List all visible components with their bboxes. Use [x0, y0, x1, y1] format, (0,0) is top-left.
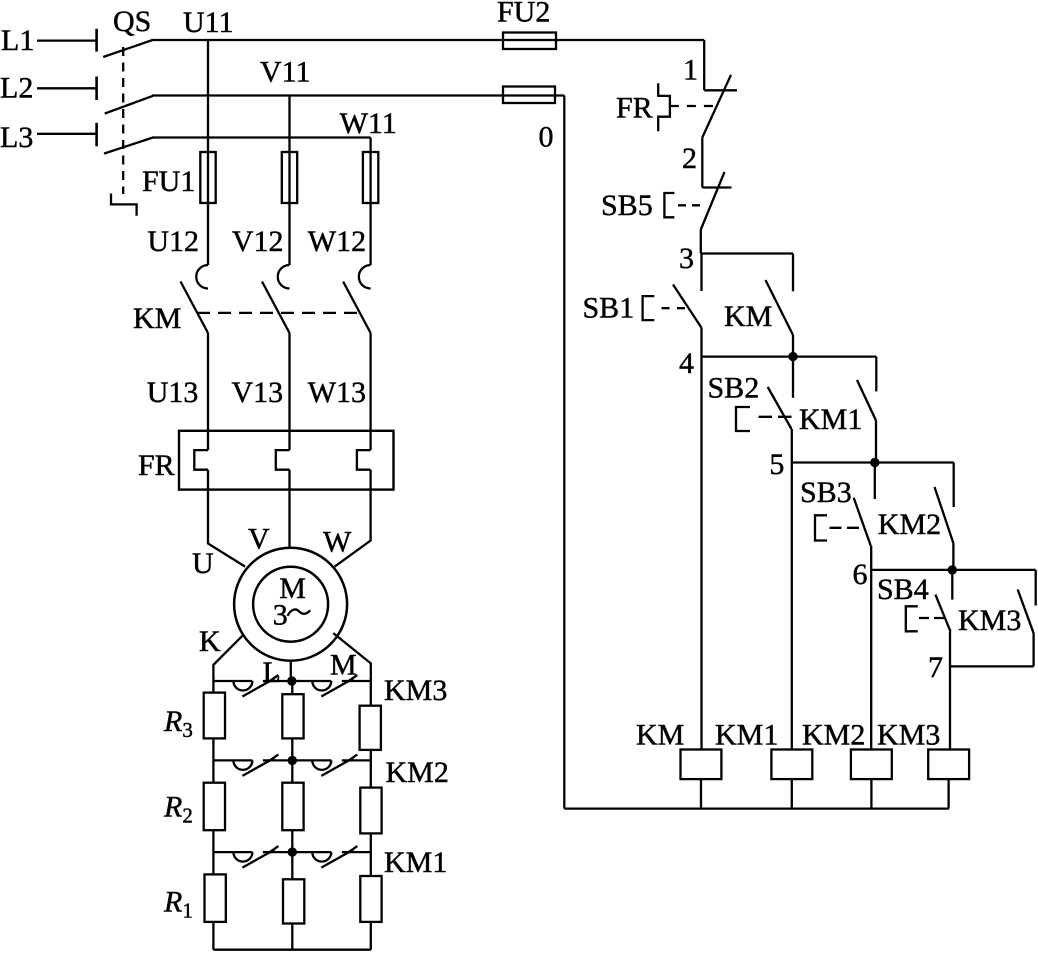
svg-text:3: 3 [273, 599, 288, 632]
svg-text:L: L [263, 656, 281, 689]
svg-text:0: 0 [539, 121, 554, 154]
svg-text:2: 2 [682, 142, 697, 175]
svg-text:V11: V11 [260, 56, 311, 89]
svg-text:SB1: SB1 [583, 292, 635, 325]
svg-text:V: V [248, 523, 270, 556]
svg-text:FR: FR [616, 92, 653, 125]
svg-text:U: U [192, 547, 214, 580]
svg-text:KM: KM [636, 719, 684, 752]
svg-text:KM2: KM2 [386, 756, 449, 789]
svg-text:KM3: KM3 [384, 674, 447, 707]
svg-text:U11: U11 [183, 6, 234, 39]
svg-text:KM2: KM2 [878, 508, 941, 541]
svg-text:U12: U12 [147, 225, 199, 258]
svg-text:L2: L2 [0, 72, 33, 105]
svg-text:V12: V12 [232, 225, 284, 258]
svg-text:KM1: KM1 [384, 846, 447, 879]
svg-text:3: 3 [679, 242, 694, 275]
svg-text:KM3: KM3 [958, 604, 1021, 637]
svg-text:SB4: SB4 [877, 573, 929, 606]
svg-text:SB2: SB2 [708, 372, 760, 405]
svg-text:5: 5 [769, 448, 784, 481]
svg-text:U13: U13 [147, 376, 199, 409]
svg-text:W12: W12 [308, 225, 366, 258]
svg-text:SB5: SB5 [601, 189, 653, 222]
svg-text:7: 7 [928, 651, 943, 684]
svg-text:6: 6 [853, 558, 868, 591]
svg-text:W: W [323, 526, 352, 559]
svg-text:QS: QS [113, 5, 151, 38]
svg-text:V13: V13 [232, 376, 284, 409]
svg-text:SB3: SB3 [800, 476, 852, 509]
svg-text:KM2: KM2 [802, 719, 865, 752]
svg-text:W13: W13 [308, 376, 366, 409]
svg-text:KM: KM [724, 300, 772, 333]
svg-text:4: 4 [679, 347, 694, 380]
svg-text:KM1: KM1 [715, 719, 778, 752]
svg-text:M: M [330, 649, 357, 682]
svg-text:1: 1 [683, 54, 698, 87]
svg-text:FU2: FU2 [497, 0, 550, 29]
svg-text:K: K [199, 625, 221, 658]
svg-text:KM: KM [133, 302, 181, 335]
svg-text:L1: L1 [1, 24, 34, 57]
svg-text:L3: L3 [0, 121, 33, 154]
svg-text:W11: W11 [340, 107, 397, 140]
svg-text:FR: FR [138, 449, 175, 482]
svg-text:FU1: FU1 [142, 165, 195, 198]
svg-text:KM1: KM1 [799, 403, 862, 436]
svg-text:KM3: KM3 [877, 719, 940, 752]
